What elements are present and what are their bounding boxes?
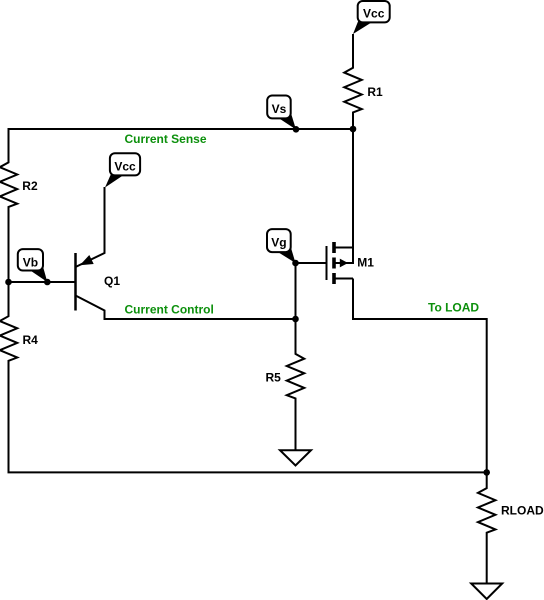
svg-text:Current Control: Current Control <box>125 303 214 317</box>
svg-text:Vg: Vg <box>271 236 286 250</box>
svg-text:RLOAD: RLOAD <box>501 503 544 517</box>
svg-text:Vcc: Vcc <box>363 6 385 20</box>
svg-text:Vs: Vs <box>272 102 287 116</box>
svg-text:R4: R4 <box>23 333 39 347</box>
svg-text:Current Sense: Current Sense <box>125 132 207 146</box>
svg-text:M1: M1 <box>357 255 374 269</box>
svg-text:Vcc: Vcc <box>114 159 136 173</box>
svg-text:R2: R2 <box>22 179 38 193</box>
svg-text:Q1: Q1 <box>104 274 120 288</box>
svg-text:To LOAD: To LOAD <box>428 301 479 315</box>
svg-text:R5: R5 <box>266 370 282 384</box>
svg-text:Vb: Vb <box>23 255 38 269</box>
svg-text:R1: R1 <box>367 85 383 99</box>
